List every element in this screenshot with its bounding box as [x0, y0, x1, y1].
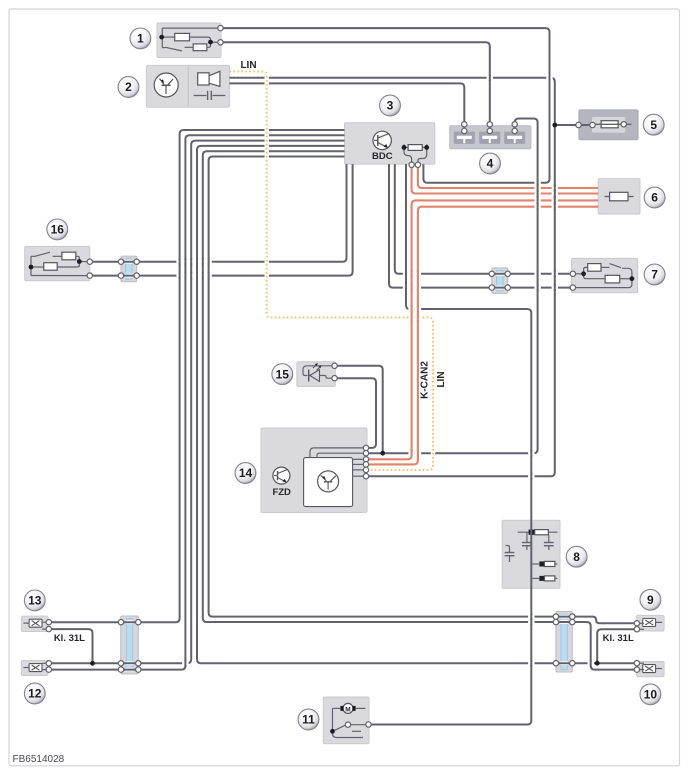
- svg-text:FZD: FZD: [272, 487, 291, 498]
- svg-text:Kl. 31L: Kl. 31L: [603, 633, 634, 644]
- svg-text:K-CAN2: K-CAN2: [420, 361, 431, 399]
- svg-text:LIN: LIN: [436, 371, 447, 387]
- svg-text:11: 11: [302, 713, 315, 727]
- svg-text:15: 15: [276, 367, 290, 381]
- svg-text:3: 3: [387, 99, 394, 113]
- svg-text:5: 5: [650, 118, 657, 132]
- svg-text:16: 16: [51, 223, 65, 237]
- svg-text:6: 6: [651, 191, 658, 205]
- svg-text:10: 10: [644, 688, 658, 702]
- svg-text:LIN: LIN: [240, 60, 256, 71]
- svg-text:FB6514028: FB6514028: [13, 754, 65, 765]
- svg-text:M: M: [345, 706, 350, 713]
- svg-text:12: 12: [28, 687, 42, 701]
- svg-text:13: 13: [28, 594, 42, 608]
- svg-text:2: 2: [125, 80, 132, 94]
- svg-text:Kl. 31L: Kl. 31L: [54, 633, 85, 644]
- svg-text:9: 9: [647, 593, 654, 607]
- svg-text:7: 7: [651, 268, 658, 282]
- svg-text:8: 8: [573, 550, 580, 564]
- svg-text:BDC: BDC: [372, 151, 393, 162]
- svg-text:4: 4: [487, 157, 494, 171]
- svg-text:14: 14: [239, 466, 253, 480]
- svg-text:1: 1: [137, 32, 144, 46]
